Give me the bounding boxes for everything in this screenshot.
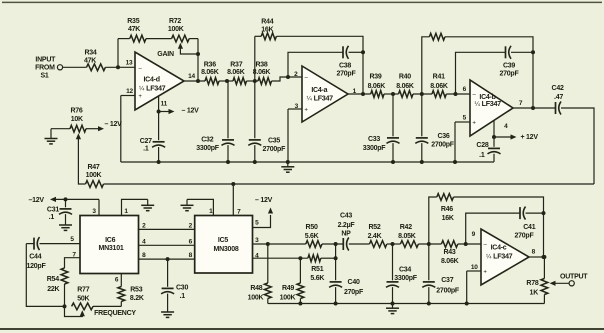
svg-text:R78: R78	[526, 280, 538, 287]
svg-text:R54: R54	[47, 276, 59, 283]
svg-text:C34: C34	[399, 266, 411, 273]
svg-text:– 12V: – 12V	[182, 108, 200, 115]
svg-text:8.06K: 8.06K	[227, 69, 245, 76]
svg-text:.1: .1	[180, 293, 186, 300]
svg-text:C27: C27	[140, 138, 152, 145]
svg-text:8.06K: 8.06K	[441, 258, 459, 265]
svg-text:R76: R76	[70, 108, 82, 115]
svg-text:C31: C31	[47, 207, 59, 214]
svg-text:R52: R52	[368, 224, 380, 231]
svg-text:8.06K: 8.06K	[430, 83, 448, 90]
svg-text:C36: C36	[437, 133, 449, 140]
svg-text:10K: 10K	[71, 116, 83, 123]
svg-text:R48: R48	[250, 285, 262, 292]
svg-text:16K: 16K	[261, 27, 273, 34]
svg-text:C44: C44	[29, 253, 41, 260]
svg-text:GAIN: GAIN	[157, 51, 174, 58]
svg-text:R53: R53	[130, 286, 142, 293]
svg-text:16K: 16K	[442, 215, 454, 222]
svg-text:C33: C33	[368, 136, 380, 143]
svg-text:C40: C40	[348, 279, 360, 286]
svg-text:.47: .47	[554, 94, 563, 101]
svg-text:C32: C32	[201, 136, 213, 143]
svg-text:C28: C28	[476, 142, 488, 149]
svg-text:R43: R43	[443, 249, 455, 256]
svg-text:1K: 1K	[530, 290, 539, 297]
svg-text:3300pF: 3300pF	[394, 275, 418, 282]
svg-text:–12V: –12V	[29, 197, 45, 204]
svg-text:12: 12	[126, 88, 133, 95]
svg-text:8.06K: 8.06K	[201, 69, 219, 76]
svg-text:R38: R38	[255, 61, 267, 68]
svg-text:100K: 100K	[280, 294, 296, 301]
svg-text:8.05K: 8.05K	[398, 233, 416, 240]
svg-text:8.2K: 8.2K	[130, 295, 144, 302]
svg-text:C35: C35	[268, 138, 280, 145]
svg-text:– 12V: – 12V	[105, 121, 123, 128]
svg-text:.1: .1	[143, 146, 149, 153]
svg-text:C38: C38	[339, 63, 351, 70]
svg-text:.1: .1	[49, 214, 55, 221]
svg-text:R34: R34	[84, 50, 96, 57]
svg-text:8.06K: 8.06K	[396, 83, 414, 90]
svg-text:5.6K: 5.6K	[305, 233, 319, 240]
svg-text:13: 13	[126, 60, 133, 67]
svg-text:50K: 50K	[77, 295, 89, 302]
svg-text:47K: 47K	[128, 26, 140, 33]
svg-text:R35: R35	[127, 18, 139, 25]
svg-text:270pF: 270pF	[337, 71, 357, 78]
svg-text:R46: R46	[441, 206, 453, 213]
svg-text:IC4-d: IC4-d	[143, 76, 159, 83]
svg-text:¼ LF347: ¼ LF347	[139, 83, 166, 92]
svg-text:– 12V: – 12V	[255, 197, 273, 204]
svg-text:120pF: 120pF	[27, 263, 47, 270]
svg-text:R41: R41	[433, 73, 445, 80]
svg-text:R39: R39	[369, 73, 381, 80]
svg-text:2.2µF: 2.2µF	[338, 222, 356, 229]
svg-text:C42: C42	[552, 85, 564, 92]
svg-text:R49: R49	[282, 285, 294, 292]
svg-text:R37: R37	[230, 61, 242, 68]
svg-text:FREQUENCY: FREQUENCY	[94, 310, 136, 317]
svg-text:R40: R40	[399, 73, 411, 80]
svg-text:C37: C37	[441, 277, 453, 284]
svg-text:22K: 22K	[47, 286, 59, 293]
svg-text:R50: R50	[306, 224, 318, 231]
svg-text:¼ LF347: ¼ LF347	[475, 99, 502, 108]
svg-text:IC5: IC5	[218, 237, 229, 244]
svg-text:2700pF: 2700pF	[436, 287, 460, 294]
svg-text:+ 12V: + 12V	[521, 134, 539, 141]
svg-text:R42: R42	[400, 224, 412, 231]
svg-text:14: 14	[188, 73, 195, 80]
svg-text:¼ LF347: ¼ LF347	[486, 252, 513, 261]
svg-text:R72: R72	[169, 18, 181, 25]
svg-text:270pF: 270pF	[500, 71, 520, 78]
svg-text:47K: 47K	[84, 57, 96, 64]
svg-text:8.06K: 8.06K	[253, 69, 271, 76]
svg-text:FROM: FROM	[35, 65, 55, 72]
svg-text:MN3101: MN3101	[99, 245, 124, 252]
svg-text:270pF: 270pF	[344, 289, 364, 296]
svg-text:270pF: 270pF	[515, 232, 535, 239]
svg-text:2.4K: 2.4K	[368, 233, 382, 240]
svg-text:S1: S1	[40, 73, 48, 80]
svg-text:IC6: IC6	[105, 237, 116, 244]
svg-text:100K: 100K	[86, 172, 102, 179]
svg-text:2700pF: 2700pF	[431, 141, 455, 148]
svg-text:100K: 100K	[168, 26, 184, 33]
svg-text:C43: C43	[340, 213, 352, 220]
svg-text:3300pF: 3300pF	[196, 145, 220, 152]
svg-text:C39: C39	[503, 63, 515, 70]
svg-text:100K: 100K	[248, 294, 264, 301]
svg-text:R77: R77	[77, 286, 89, 293]
svg-text:5.6K: 5.6K	[310, 275, 324, 282]
svg-text:8.06K: 8.06K	[368, 83, 386, 90]
svg-text:R47: R47	[87, 164, 99, 171]
svg-text:3300pF: 3300pF	[363, 145, 387, 152]
svg-text:IC4-c: IC4-c	[491, 245, 507, 252]
svg-text:INPUT: INPUT	[35, 57, 56, 64]
svg-text:R36: R36	[204, 61, 216, 68]
svg-text:¼ LF347: ¼ LF347	[307, 94, 334, 103]
svg-text:MN3008: MN3008	[214, 246, 239, 253]
svg-text:OUTPUT: OUTPUT	[560, 273, 588, 280]
svg-text:2700pF: 2700pF	[262, 146, 286, 153]
svg-text:10: 10	[471, 264, 478, 271]
svg-text:NP: NP	[341, 231, 351, 238]
svg-text:R44: R44	[261, 19, 273, 26]
svg-text:C41: C41	[523, 224, 535, 231]
svg-text:11: 11	[161, 101, 168, 108]
svg-text:.1: .1	[479, 152, 485, 159]
svg-text:C30: C30	[176, 285, 188, 292]
svg-text:R51: R51	[311, 266, 323, 273]
